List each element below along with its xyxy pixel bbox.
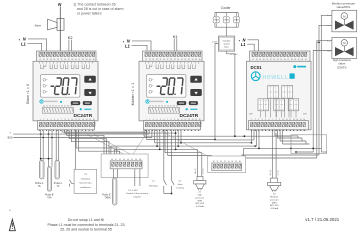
svg-text:(HP): (HP) [198, 200, 203, 202]
svg-text:22: 22 [270, 59, 272, 61]
svg-text:Probe B: Probe B [45, 193, 54, 196]
wire switch join [163, 191, 165, 194]
set button [189, 101, 198, 105]
wire dc01 run c [255, 145, 256, 147]
wire probe E pair [112, 169, 114, 178]
label Z2 wires [269, 169, 272, 175]
svg-text:or power failure: or power failure [77, 12, 102, 16]
svg-text:DIN: DIN [249, 114, 253, 116]
svg-text:L1: L1 [241, 42, 247, 47]
fnc button [71, 101, 80, 105]
svg-text:Heat: Heat [178, 183, 183, 186]
svg-text:30: 30 [177, 59, 179, 61]
wire dev1 run6 [79, 130, 120, 154]
svg-text:TS4: TS4 [47, 198, 52, 200]
wire run d [111, 146, 255, 154]
wire L1 master [132, 45, 148, 51]
svg-text:L1: L1 [125, 43, 131, 48]
svg-text:DIN: DIN [303, 114, 307, 116]
svg-text:Control of the recovery: Control of the recovery [126, 192, 149, 195]
svg-text:recovery: recovery [176, 187, 185, 190]
svg-text:20: 20 [263, 59, 265, 61]
svg-text:uBr (2): uBr (2) [269, 169, 272, 175]
slave label [26, 84, 30, 105]
terminal strip top [37, 51, 97, 61]
svg-text:24: 24 [277, 59, 279, 61]
svg-text:DC24TR: DC24TR [74, 113, 93, 119]
wire [144, 130, 146, 131]
svg-text:Slave r1 = 0: Slave r1 = 0 [26, 84, 30, 105]
svg-text:28: 28 [64, 59, 66, 61]
junction valve feed [318, 42, 320, 44]
controller U2 DC24TR master [139, 51, 204, 131]
terminal strip DC01 top [250, 51, 311, 61]
svg-text:22: 22 [43, 59, 45, 61]
wire dev1 run5 [76, 130, 117, 154]
wire L1 DC01 [247, 44, 254, 51]
up button [190, 76, 202, 83]
wire K1 [173, 38, 175, 51]
svg-text:26: 26 [284, 59, 286, 61]
terminal block 40-46 outer [101, 154, 148, 178]
svg-text:35: 35 [195, 59, 197, 61]
wire P1 pair [134, 169, 136, 186]
svg-text:29: 29 [294, 59, 296, 61]
svg-text:Master r1 = 1: Master r1 = 1 [131, 83, 135, 106]
wire V1 no [321, 15, 332, 152]
svg-text:Limitation: Limitation [81, 177, 91, 180]
wire N DC01 [248, 40, 259, 51]
svg-text:24: 24 [156, 59, 158, 61]
svg-text:29: 29 [174, 59, 176, 61]
wire drive supply [227, 51, 235, 136]
svg-text:ventilateurs: ventilateurs [80, 186, 92, 189]
wire L1 slave [28, 43, 42, 51]
svg-text:nocturne des: nocturne des [79, 182, 93, 185]
pressure transmitter Z1 [197, 177, 203, 181]
svg-text:Probe C: Probe C [54, 182, 63, 185]
svg-text:M: M [343, 41, 345, 45]
wire fans to drive [225, 27, 227, 36]
relay module A4 [274, 99, 285, 111]
wire dc01 run a [215, 139, 254, 141]
svg-text:32: 32 [78, 59, 80, 61]
svg-text:Variable: Variable [223, 39, 232, 42]
wire dev1 run2 [67, 130, 104, 154]
temperature probe C [55, 160, 59, 179]
relay contact diagram band [145, 62, 198, 69]
switch S1 [70, 180, 75, 184]
svg-text:out (1): out (1) [276, 170, 279, 176]
svg-text:22: 22 [149, 59, 151, 61]
wire probe C pair [55, 130, 57, 161]
display status icons [149, 78, 152, 81]
svg-text:Medium: Medium [270, 197, 278, 199]
svg-text:Steckkey: Steckkey [149, 184, 159, 187]
wire [38, 130, 40, 131]
down button [84, 89, 96, 96]
svg-text:19: 19 [259, 59, 261, 61]
svg-text:speed: speed [224, 43, 231, 45]
wire dev1 run4 [71, 130, 109, 154]
eliwell mark [186, 108, 188, 110]
svg-text:valve/MVL: valve/MVL [336, 5, 350, 9]
display [40, 75, 80, 98]
wire run g [168, 155, 212, 157]
svg-text:32: 32 [184, 59, 186, 61]
svg-text:26: 26 [57, 59, 59, 61]
svg-text:23: 23 [152, 59, 154, 61]
svg-text:34: 34 [192, 59, 194, 61]
wire mesh DC01 drops [251, 130, 253, 133]
wire run e [114, 149, 197, 154]
svg-text:36: 36 [199, 59, 201, 61]
7-segment readout -20.7 [156, 78, 183, 95]
alarm buzzer [57, 19, 64, 31]
leader master to block [133, 131, 148, 154]
svg-text:33: 33 [82, 59, 84, 61]
wire loop links [296, 151, 313, 153]
svg-text:21: 21 [145, 59, 147, 61]
display [146, 75, 186, 98]
svg-text:25: 25 [54, 59, 56, 61]
switch C2 night limit box [74, 169, 97, 193]
svg-text:ICMTS: ICMTS [337, 65, 346, 69]
wire dev1 run1b [64, 130, 66, 134]
svg-text:Probe E: Probe E [102, 193, 111, 196]
wire N drop [59, 7, 61, 51]
svg-text:31: 31 [75, 59, 77, 61]
terminal block 30-36 outer [208, 156, 246, 172]
svg-text:BUS: BUS [8, 137, 13, 140]
wire dev1 run [61, 130, 63, 133]
svg-text:28: 28 [170, 59, 172, 61]
svg-text:30: 30 [298, 59, 300, 61]
transmitter Z1 wires [197, 149, 199, 176]
wire probe A pair [40, 130, 42, 161]
svg-text:pressure: pressure [196, 196, 205, 199]
svg-text:L1: L1 [21, 41, 27, 46]
wire run a [144, 135, 291, 137]
display status icons [43, 78, 46, 81]
svg-text:26: 26 [163, 59, 165, 61]
svg-text:35: 35 [89, 59, 91, 61]
relay module A3 [258, 99, 269, 111]
eliwell mark [80, 108, 82, 110]
fnc button [177, 101, 186, 105]
switch C1 [164, 180, 167, 191]
svg-text:30: 30 [71, 59, 73, 61]
svg-text:Do not swap L1 and N!: Do not swap L1 and N! [68, 218, 105, 222]
wire fan rails [215, 12, 238, 14]
svg-text:TA: TA [38, 185, 41, 188]
wire N master [132, 41, 151, 51]
svg-text:pressure: pressure [270, 198, 279, 201]
wire drive analog in [215, 44, 218, 140]
switch C2h [172, 180, 175, 193]
svg-text:M: M [343, 14, 345, 18]
svg-text:K2: K2 [68, 36, 73, 40]
controller U3 DC01 body [247, 61, 312, 130]
label Z1 wires [194, 168, 197, 174]
warning triangle [9, 219, 15, 230]
svg-text:31: 31 [181, 59, 183, 61]
relay module A5 [288, 99, 299, 111]
svg-text:21: 21 [39, 59, 41, 61]
leader dev1 to block 2 [93, 134, 130, 154]
svg-text:BLP 4X5: BLP 4X5 [270, 205, 279, 207]
wire V1 com [319, 25, 332, 155]
svg-text:27: 27 [287, 59, 289, 61]
wire C2 box [74, 130, 76, 170]
fan M1 [216, 20, 220, 24]
valve V1 body [335, 21, 354, 30]
svg-text:DC24TR: DC24TR [180, 113, 199, 119]
wire dev1 run3 [69, 130, 106, 154]
svg-text:v1.7 / 21.06.2021: v1.7 / 21.06.2021 [305, 217, 339, 222]
svg-text:HRWELL: HRWELL [263, 75, 289, 81]
relay module A2 [282, 86, 293, 99]
wire V2 com [313, 51, 332, 153]
variable speed drive [218, 36, 234, 51]
svg-text:32: 32 [305, 59, 307, 61]
wire bus plus [13, 133, 149, 135]
eliwell mark DC01 [293, 65, 296, 68]
svg-text:P1 0-10V: P1 0-10V [128, 190, 138, 192]
switch C1 wires [163, 130, 165, 181]
fan M2 [226, 20, 230, 24]
wire dc01 right runs [275, 135, 298, 137]
set button [83, 101, 92, 105]
relay module A1 [268, 86, 279, 99]
svg-text:36: 36 [93, 59, 95, 61]
svg-text:23: 23 [273, 59, 275, 61]
svg-text:DC01: DC01 [251, 65, 263, 70]
wire V2 no [317, 41, 332, 158]
svg-text:33: 33 [188, 59, 190, 61]
wire dc01 run b [244, 147, 322, 149]
wire N slave [28, 39, 47, 51]
wire probe common link [41, 158, 52, 160]
svg-text:23: 23 [46, 59, 48, 61]
wire run f [165, 152, 202, 154]
svg-text:out (1): out (1) [202, 168, 205, 174]
svg-text:25: 25 [280, 59, 282, 61]
valve V2 body [335, 47, 354, 56]
svg-text:18: 18 [256, 59, 258, 61]
temperature probe E [113, 178, 117, 205]
valve V2 box [332, 38, 357, 59]
svg-text:BLP 4X5: BLP 4X5 [195, 203, 204, 205]
relay contact diagram band [39, 62, 92, 69]
wire probe B pair [48, 130, 50, 167]
leader master to block 30 [162, 131, 208, 156]
wire bus minus [13, 137, 152, 139]
valve V1 box [332, 10, 357, 32]
svg-text:31: 31 [301, 59, 303, 61]
svg-text:Phase L1 must be connected to: Phase L1 must be connected to terminals … [47, 223, 125, 227]
valve V2 motor [341, 40, 347, 46]
svg-text:21: 21 [266, 59, 268, 61]
svg-text:17: 17 [252, 59, 254, 61]
svg-text:29: 29 [68, 59, 70, 61]
wire run c [155, 142, 252, 144]
7-segment readout -20.7 [50, 78, 77, 95]
svg-text:TABN: TABN [105, 197, 111, 200]
terminal strip top [143, 51, 203, 61]
wire mesh master drops [143, 130, 145, 137]
svg-text:Alarm: Alarm [35, 25, 42, 28]
svg-text:4-20mA: 4-20mA [196, 205, 204, 208]
svg-text:drive: drive [224, 45, 230, 48]
svg-text:27: 27 [167, 59, 169, 61]
svg-text:27: 27 [61, 59, 63, 61]
svg-text:TV: TV [57, 186, 60, 188]
svg-text:1) The contact between 26: 1) The contact between 26 [73, 3, 116, 7]
controller body [33, 61, 98, 121]
svg-text:and 28 is cut in case of alarm: and 28 is cut in case of alarm [77, 7, 124, 11]
pressure transmitter Z2 [270, 178, 277, 182]
brand logo small [40, 100, 43, 103]
svg-text:uBr (2): uBr (2) [194, 168, 197, 174]
master label [131, 83, 135, 106]
svg-text:4-20mA: 4-20mA [270, 207, 278, 210]
svg-text:24: 24 [50, 59, 52, 61]
svg-text:34: 34 [86, 59, 88, 61]
up button [84, 76, 96, 83]
valve V1 motor [341, 13, 348, 20]
fan M3 [236, 20, 240, 24]
down button [190, 89, 202, 96]
routing loop right [291, 135, 327, 154]
svg-text:setpoint: setpoint [133, 196, 141, 199]
controller body [139, 61, 204, 121]
temperature probe A [40, 160, 44, 179]
svg-text:Probe A: Probe A [35, 182, 44, 185]
svg-text:25, 26 and neutral to terminal: 25, 26 and neutral to terminal 55 [60, 227, 112, 231]
svg-text:28: 28 [291, 59, 293, 61]
wire stubs DC01 [251, 130, 253, 131]
leader dev1 to block [87, 134, 124, 154]
temperature probe B [47, 167, 51, 191]
svg-text:Cooler: Cooler [221, 6, 232, 10]
svg-text:L1 230V: L1 230V [230, 54, 238, 56]
wire module drops [270, 99, 272, 118]
wire run b [147, 139, 215, 141]
controller U1 DC24TR slave [33, 51, 98, 131]
svg-text:25: 25 [160, 59, 162, 61]
hawle logo [251, 72, 260, 81]
brand logo small [146, 100, 149, 103]
wire Z2 pair [271, 133, 273, 178]
wire K2 [68, 40, 70, 51]
svg-text:(MP): (MP) [272, 202, 277, 204]
